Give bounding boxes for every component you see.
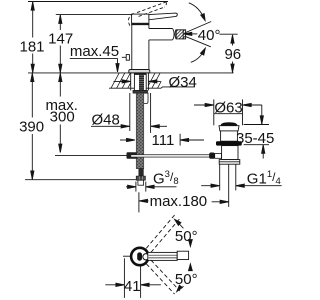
top view faucet body circle [131, 248, 148, 265]
hose nut G3/8 [136, 176, 145, 180]
top view lever grip bar [137, 252, 142, 260]
dimension max300 arrows [59, 73, 62, 81]
dimension 111 [120, 139, 135, 141]
svg-text:G11/4: G11/4 [247, 169, 281, 187]
extension line handle top (181 top) [28, 1, 168, 3]
dimension 390 line [31, 73, 33, 117]
top view pop-up pin [123, 255, 131, 257]
rod ball knob [209, 153, 214, 159]
mounting washer [133, 90, 148, 93]
countertop surface line [28, 72, 234, 74]
spout [149, 28, 173, 30]
svg-text:max.45: max.45 [70, 43, 119, 60]
shank tube [134, 74, 146, 90]
svg-text:111: 111 [151, 132, 174, 149]
shank collar dark bar [134, 73, 147, 75]
svg-text:Ø34: Ø34 [169, 74, 197, 91]
waste locknut [219, 160, 240, 165]
label O63 [194, 104, 213, 106]
label max45 leader [70, 57, 118, 59]
label G1 1/4 [201, 185, 219, 187]
swing arc lower 50deg [177, 286, 184, 291]
svg-text:181: 181 [19, 38, 44, 55]
waste lower body [222, 146, 238, 160]
label G3/8 [135, 182, 137, 192]
top view lever end cap [177, 251, 188, 259]
svg-text:41: 41 [124, 278, 141, 295]
aerator spray direction upper [186, 22, 212, 33]
svg-text:50°: 50° [175, 228, 198, 245]
dimension 147 arrows [59, 15, 62, 23]
flexible supply hose [136, 93, 144, 169]
dimension 96 top extension [219, 33, 237, 35]
dimension 147 line [59, 15, 61, 30]
svg-text:50°: 50° [175, 271, 198, 288]
aerator spray direction lower [186, 37, 211, 47]
label 40deg leader tick [182, 30, 184, 40]
pop-up horizontal rod [131, 155, 210, 157]
waste upper body [221, 131, 238, 141]
svg-text:300: 300 [50, 109, 75, 126]
faucet head (cartridge housing) [132, 14, 149, 25]
waste seal ring [216, 141, 242, 145]
svg-text:40°: 40° [198, 27, 221, 44]
rod link to waste [215, 154, 222, 159]
label O34 [161, 87, 195, 88]
dimension 181 line [32, 2, 34, 38]
waste flange extension lines O63 [213, 99, 215, 125]
hose crimp collar [139, 169, 144, 177]
lever swing dashed lower [146, 260, 180, 294]
spray swing arc upper [189, 3, 205, 20]
waste tailpipe G1 1/4 [219, 164, 221, 190]
lever handle raised dashed [128, 2, 166, 27]
waste pop-up rod vertical [228, 164, 230, 207]
50deg vertical ticks at lever [189, 243, 191, 246]
dimension 35-45 [261, 105, 263, 124]
dimension 390 bottom extension line [25, 179, 136, 181]
waste plug cap [221, 122, 238, 125]
mounting hole walls [130, 73, 132, 91]
threaded stud [139, 74, 144, 90]
aerator (mousseur) [176, 30, 185, 39]
spray swing arc lower [191, 49, 205, 62]
top view lever bar [148, 252, 177, 260]
pop-up knob pin [122, 56, 126, 58]
svg-text:max.180: max.180 [150, 193, 208, 210]
dimension max300 line [59, 73, 61, 96]
dimension 390 arrows [31, 73, 34, 81]
mounting nut [142, 93, 148, 103]
dimension O34 arrows [114, 80, 131, 82]
countertop hatch left [111, 73, 131, 88]
dimension max300 bottom extension (pop-up rod level) [55, 154, 127, 156]
lever swing dashed upper [146, 213, 181, 252]
countertop bottom line [109, 87, 161, 89]
svg-text:G3/8: G3/8 [153, 169, 179, 187]
svg-text:96: 96 [224, 46, 241, 63]
swing arc upper 50deg [175, 220, 183, 229]
dimension 41 [123, 258, 125, 298]
faucet body [131, 25, 133, 70]
lever handle solid [149, 13, 177, 20]
pop-up rod clamp [127, 152, 138, 159]
hose nipple stub [138, 180, 144, 185]
base escutcheon [129, 70, 150, 73]
dimension 181 arrows [31, 2, 34, 10]
extension line head top (147 top) [56, 14, 132, 16]
countertop hatch right [149, 73, 162, 88]
dimension max180 [138, 192, 140, 212]
dimension 96 line [232, 35, 234, 46]
waste flange [219, 126, 239, 131]
dimension O48 extension lines [129, 93, 131, 131]
top view pivot circle [143, 254, 149, 260]
svg-text:390: 390 [19, 119, 44, 136]
